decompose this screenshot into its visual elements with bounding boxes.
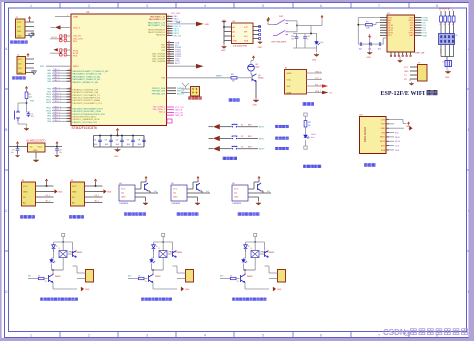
label key2 function chinese bbox=[276, 137, 279, 140]
svg-text:GND: GND bbox=[107, 191, 112, 193]
svg-text:PA11/USART1_CTS: PA11/USART1_CTS bbox=[148, 22, 166, 25]
header J8 blue 2x4 bbox=[439, 34, 455, 45]
svg-text:PA4_1: PA4_1 bbox=[54, 79, 61, 82]
svg-text:SPI_CS: SPI_CS bbox=[174, 35, 182, 37]
module U8 RFID-RC522 bbox=[360, 117, 387, 154]
gnd U6 bbox=[248, 196, 259, 198]
capacitor C3 output bbox=[56, 146, 58, 148]
capacitor C1 reset bbox=[27, 114, 31, 115]
svg-text:LED2: LED2 bbox=[311, 134, 317, 136]
wire DQ U5 bbox=[200, 190, 202, 192]
svg-text:104: 104 bbox=[94, 144, 97, 146]
transistor Q1 driver bbox=[49, 274, 54, 282]
rc network and led backlight bbox=[297, 25, 311, 27]
label led chinese bbox=[304, 165, 307, 168]
svg-text:8: 8 bbox=[436, 4, 438, 8]
svg-text:VCC: VCC bbox=[287, 79, 292, 81]
button S1 reset bbox=[15, 110, 21, 121]
svg-text:12: 12 bbox=[69, 88, 71, 90]
gnd U3 right bbox=[259, 26, 261, 28]
svg-text:PA10: PA10 bbox=[174, 18, 180, 21]
IC U5 DS18B20 bbox=[171, 185, 187, 201]
svg-text:CSDN: CSDN bbox=[383, 328, 406, 337]
svg-text:A0_1: A0_1 bbox=[95, 199, 99, 202]
gnd U5 bbox=[187, 196, 198, 198]
wire DQ U6 bbox=[261, 190, 263, 192]
svg-text:104: 104 bbox=[105, 144, 108, 146]
svg-text:VCC: VCC bbox=[404, 67, 409, 69]
svg-text:PA14/JTCK/SWCLK: PA14/JTCK/SWCLK bbox=[148, 31, 166, 34]
svg-text:PB3_1: PB3_1 bbox=[54, 112, 61, 114]
svg-text:CLK: CLK bbox=[18, 68, 23, 70]
svg-text:PB5_1: PB5_1 bbox=[54, 117, 61, 119]
svg-text:S8050: S8050 bbox=[247, 276, 252, 278]
svg-text:A0_1: A0_1 bbox=[46, 199, 50, 202]
transistor Q2 driver bbox=[149, 274, 154, 282]
svg-text:PB9/TIM4_CH4: PB9/TIM4_CH4 bbox=[152, 93, 165, 95]
pullup transistor U6 bbox=[248, 188, 254, 190]
MCU right pin rows group2 bbox=[167, 41, 183, 65]
svg-text:PA3_1: PA3_1 bbox=[54, 76, 61, 79]
svg-text:4: 4 bbox=[444, 24, 445, 26]
capacitor C2 input bbox=[17, 146, 19, 148]
svg-text:PB5/I2C1_SMBA/SPI3_MOSI: PB5/I2C1_SMBA/SPI3_MOSI bbox=[73, 118, 101, 121]
port gnd card reader bbox=[394, 127, 404, 129]
power flag switches bbox=[267, 18, 269, 21]
svg-text:X1: X1 bbox=[442, 62, 444, 64]
diode D2 flyback bbox=[153, 242, 155, 245]
svg-text:MISO: MISO bbox=[395, 137, 401, 139]
svg-text:TXD: TXD bbox=[17, 26, 22, 28]
svg-text:S8550: S8550 bbox=[177, 252, 182, 254]
svg-text:VCC: VCC bbox=[17, 22, 22, 24]
gnd U3 left-top bbox=[223, 23, 225, 27]
svg-text:C5: C5 bbox=[105, 139, 107, 141]
gnd esp caps bbox=[369, 44, 371, 50]
emitter wire 2 bbox=[152, 283, 154, 289]
svg-text:6: 6 bbox=[320, 334, 322, 338]
svg-text:PA15/JTDI: PA15/JTDI bbox=[156, 34, 165, 37]
label smoke-detect chinese bbox=[21, 215, 24, 218]
svg-text:C7: C7 bbox=[127, 139, 129, 141]
svg-text:2: 2 bbox=[440, 52, 441, 54]
svg-text:PB1_1: PB1_1 bbox=[54, 90, 61, 92]
reset circuit R1 C1 S1 bbox=[25, 87, 28, 91]
svg-text:TIM2_CH1/PA5: TIM2_CH1/PA5 bbox=[152, 52, 165, 55]
port arrow display sda bbox=[322, 91, 329, 94]
svg-text:B: B bbox=[5, 128, 7, 132]
svg-text:8: 8 bbox=[452, 10, 453, 12]
svg-text:12: 12 bbox=[69, 69, 71, 71]
header J6 display bbox=[285, 70, 307, 95]
svg-text:SCK: SCK bbox=[381, 145, 386, 147]
svg-text:DS18B20: DS18B20 bbox=[120, 203, 129, 205]
svg-text:GND: GND bbox=[258, 47, 263, 49]
MCU left pin bundle wires bbox=[46, 68, 71, 123]
svg-text:PB0_1: PB0_1 bbox=[54, 87, 61, 89]
svg-text:LED: LED bbox=[320, 42, 324, 44]
gnd stub led bbox=[304, 146, 307, 149]
svg-text:8: 8 bbox=[436, 334, 438, 338]
svg-text:U2 AMS1117(SOT): U2 AMS1117(SOT) bbox=[26, 140, 46, 143]
svg-text:WIFI: WIFI bbox=[411, 91, 426, 97]
resistor array R4-R7 bbox=[440, 11, 442, 16]
transistor Q2b bbox=[168, 253, 173, 255]
svg-text:4: 4 bbox=[204, 334, 206, 338]
svg-text:PB11/I2C2_SDA/USART3_RX: PB11/I2C2_SDA/USART3_RX bbox=[73, 97, 101, 100]
port gnd relay 1 bbox=[81, 287, 83, 290]
svg-text:104: 104 bbox=[138, 144, 141, 146]
svg-text:SDA: SDA bbox=[287, 91, 292, 94]
svg-text:PA1_1: PA1_1 bbox=[54, 71, 61, 74]
svg-text:12: 12 bbox=[69, 117, 71, 119]
svg-text:GND_A: GND_A bbox=[175, 109, 183, 112]
svg-text:RST: RST bbox=[30, 101, 35, 103]
svg-text:GND: GND bbox=[121, 197, 126, 199]
svg-text:TIM2_CH3/PA7: TIM2_CH3/PA7 bbox=[152, 58, 165, 61]
svg-text:VCC: VCC bbox=[121, 189, 126, 191]
svg-text:STM32F103C8T6: STM32F103C8T6 bbox=[72, 126, 98, 130]
svg-text:K2: K2 bbox=[241, 136, 243, 138]
svg-text:BOOT1: BOOT1 bbox=[177, 93, 185, 95]
label J2 chinese bbox=[13, 77, 16, 80]
IC U6 DS18B20 bbox=[232, 185, 248, 201]
svg-text:S8550: S8550 bbox=[269, 252, 274, 254]
label buzzer chinese bbox=[229, 99, 232, 102]
svg-text:SDA_1: SDA_1 bbox=[315, 90, 321, 93]
svg-text:GND: GND bbox=[114, 156, 119, 158]
svg-text:PB10/I2C2_SCL/USART3_TX: PB10/I2C2_SCL/USART3_TX bbox=[73, 94, 101, 97]
label keys chinese bbox=[223, 157, 226, 160]
svg-text:24C02(SOP8): 24C02(SOP8) bbox=[233, 45, 247, 47]
svg-text:1u: 1u bbox=[307, 39, 309, 41]
svg-text:GND: GND bbox=[23, 191, 28, 193]
diode D3 flyback bbox=[245, 242, 247, 245]
svg-text:12: 12 bbox=[69, 72, 71, 74]
svg-text:PB12/SPI2_NSS/I2C2_SMBA: PB12/SPI2_NSS/I2C2_SMBA bbox=[73, 99, 101, 102]
svg-text:PB9: PB9 bbox=[161, 50, 165, 52]
pullup transistor U5 bbox=[187, 188, 193, 190]
svg-text:C4: C4 bbox=[94, 139, 96, 141]
svg-text:12: 12 bbox=[69, 96, 71, 98]
svg-text:12: 12 bbox=[69, 107, 71, 109]
net stub led bbox=[304, 113, 307, 116]
svg-text:SDA: SDA bbox=[381, 149, 386, 152]
svg-text:blue: blue bbox=[311, 137, 315, 139]
antenna symbol J5 bbox=[182, 83, 189, 89]
svg-text:1: 1 bbox=[30, 4, 32, 8]
svg-text:GND: GND bbox=[205, 24, 210, 26]
svg-text:SCK: SCK bbox=[395, 146, 400, 148]
vcc cap bank bbox=[116, 129, 119, 133]
svg-text:12: 12 bbox=[69, 75, 71, 77]
port GND right2 bbox=[167, 65, 197, 67]
vcc rc right bbox=[321, 16, 323, 20]
resistor R9 on beep wire bbox=[231, 77, 237, 79]
crystal Y1 32k bbox=[50, 38, 61, 40]
svg-text:GND_1: GND_1 bbox=[315, 71, 321, 73]
svg-text:PB14_1: PB14_1 bbox=[54, 106, 62, 108]
svg-text:12: 12 bbox=[69, 115, 71, 117]
pullup transistor U4 bbox=[135, 188, 141, 190]
svg-text:OSC_IN: OSC_IN bbox=[73, 36, 81, 38]
led D2b status bbox=[152, 257, 154, 259]
svg-text:SDA: SDA bbox=[395, 149, 400, 152]
svg-text:GND: GND bbox=[85, 289, 90, 291]
svg-text:104: 104 bbox=[359, 48, 362, 50]
svg-text:PA12/USART1_RTS: PA12/USART1_RTS bbox=[148, 24, 166, 27]
svg-text:RFID-RC522: RFID-RC522 bbox=[363, 126, 367, 142]
ground U2 bbox=[35, 152, 37, 158]
header J3 sensor bbox=[22, 182, 36, 206]
svg-text:12: 12 bbox=[69, 77, 71, 79]
svg-text:KEY SW-SPDT: KEY SW-SPDT bbox=[272, 41, 288, 43]
svg-text:12: 12 bbox=[69, 98, 71, 100]
svg-text:@: @ bbox=[404, 330, 411, 337]
svg-text:PB8/TIM4_CH3: PB8/TIM4_CH3 bbox=[152, 91, 165, 93]
port gnd relay 3 bbox=[273, 287, 275, 290]
svg-text:GND: GND bbox=[185, 289, 190, 291]
header J4 sensor bbox=[71, 182, 85, 206]
MCU U1 STM32F103C8T6 bbox=[71, 11, 181, 130]
svg-text:12: 12 bbox=[69, 112, 71, 114]
component X1 right bbox=[445, 61, 452, 67]
svg-text:GND: GND bbox=[404, 71, 409, 73]
module U7 ESP-12F bbox=[387, 15, 415, 52]
svg-text:4: 4 bbox=[452, 24, 453, 26]
vcc relay 2 bbox=[162, 234, 165, 237]
svg-text:PB15/SPI2_MOSI/TIM1_CH3N: PB15/SPI2_MOSI/TIM1_CH3N bbox=[73, 111, 102, 113]
svg-text:TIM2_CH4/PB8: TIM2_CH4/PB8 bbox=[152, 61, 165, 63]
svg-text:PB6_1: PB6_1 bbox=[54, 120, 61, 122]
svg-text:GND: GND bbox=[234, 197, 239, 199]
svg-text:VCC: VCC bbox=[234, 189, 239, 191]
svg-text:RST: RST bbox=[40, 66, 45, 68]
button S1 bbox=[220, 126, 231, 128]
wire NRST bbox=[46, 65, 71, 67]
svg-text:IRQ: IRQ bbox=[395, 132, 399, 134]
port gnd relay 2 bbox=[181, 287, 183, 290]
svg-text:PA3/USART2_RX/ADC12_IN3: PA3/USART2_RX/ADC12_IN3 bbox=[73, 78, 102, 81]
svg-text:D0_1: D0_1 bbox=[95, 195, 100, 197]
svg-text:104: 104 bbox=[127, 144, 130, 146]
port GND right1 bbox=[167, 23, 197, 25]
svg-text:S8550: S8550 bbox=[77, 252, 82, 254]
transistor Q1b bbox=[68, 253, 73, 255]
svg-text:VSS_3/VDD_1: VSS_3/VDD_1 bbox=[152, 109, 165, 111]
label relay chinese 1 bbox=[41, 298, 44, 301]
svg-text:DQ: DQ bbox=[173, 193, 177, 195]
svg-text:DQ: DQ bbox=[121, 193, 125, 195]
MCU right pin rows group1 bbox=[167, 15, 183, 37]
svg-text:PB15_1: PB15_1 bbox=[54, 109, 62, 111]
MCU right SWD stubs bbox=[167, 88, 186, 95]
svg-text:S8050: S8050 bbox=[55, 276, 60, 278]
svg-text:PA0_1: PA0_1 bbox=[54, 68, 61, 71]
header relay out 1 bbox=[86, 270, 94, 283]
svg-text:2: 2 bbox=[88, 4, 90, 8]
IC U3 eeprom 24C02 bbox=[232, 23, 254, 44]
svg-text:PA4/SPI1_NSS/ADC12_IN4: PA4/SPI1_NSS/ADC12_IN4 bbox=[73, 81, 99, 84]
bus bottom rc bbox=[293, 47, 317, 49]
port GND left bbox=[55, 25, 61, 29]
emitter wire 3 bbox=[244, 283, 246, 289]
capacitor C10 bbox=[296, 34, 298, 37]
svg-text:PA2/USART2_TX/ADC12_IN2: PA2/USART2_TX/ADC12_IN2 bbox=[73, 75, 101, 78]
switch SW2 bbox=[273, 31, 288, 36]
svg-text:GND: GND bbox=[406, 126, 411, 128]
svg-text:GND: GND bbox=[287, 73, 292, 75]
svg-text:K3: K3 bbox=[241, 147, 243, 149]
svg-text:RXD: RXD bbox=[17, 31, 22, 33]
label temp module chinese 2 bbox=[177, 213, 180, 216]
wire DQ U4 bbox=[148, 190, 150, 192]
svg-text:GND: GND bbox=[33, 150, 38, 152]
svg-text:PA2_1: PA2_1 bbox=[54, 73, 61, 76]
svg-text:DQ: DQ bbox=[267, 191, 270, 193]
svg-text:MOSI: MOSI bbox=[395, 141, 401, 143]
svg-text:PB13_1: PB13_1 bbox=[54, 101, 62, 103]
svg-text:OSC32: OSC32 bbox=[51, 37, 57, 39]
svg-text:PA10/USART1_RX: PA10/USART1_RX bbox=[149, 18, 166, 21]
svg-text:GND: GND bbox=[173, 197, 178, 199]
svg-text:5: 5 bbox=[262, 334, 264, 338]
svg-text:12: 12 bbox=[69, 101, 71, 103]
label temp module chinese 3 bbox=[238, 213, 241, 216]
lavender edge strips bbox=[0, 0, 474, 2]
MCU bottom-right magenta power stubs bbox=[167, 107, 185, 123]
svg-text:VBAT: VBAT bbox=[73, 15, 79, 18]
svg-text:1: 1 bbox=[440, 50, 441, 52]
svg-text:VCC_5V0: VCC_5V0 bbox=[171, 13, 181, 15]
svg-text:PA13/JTMS/SWDIO: PA13/JTMS/SWDIO bbox=[148, 29, 165, 32]
svg-text:104: 104 bbox=[291, 39, 294, 41]
transistor Q3 driver bbox=[241, 274, 246, 282]
svg-text:PB7/I2C1_SDA: PB7/I2C1_SDA bbox=[152, 87, 166, 90]
esp decoupling caps C12 C13 C14 bbox=[358, 43, 360, 45]
port gnd J4 bbox=[101, 190, 106, 193]
svg-text:ADC: ADC bbox=[388, 19, 393, 22]
svg-text:PA0/WKUP/USART2_CTS/ADC12_IN0: PA0/WKUP/USART2_CTS/ADC12_IN0 bbox=[73, 70, 110, 73]
svg-text:USB: USB bbox=[176, 22, 181, 24]
resistor R2 led bbox=[304, 121, 307, 128]
svg-text:ESP-12F/E: ESP-12F/E bbox=[381, 91, 409, 97]
svg-text:VDD_3: VDD_3 bbox=[73, 27, 81, 29]
svg-text:TIM2_CH2/PA6: TIM2_CH2/PA6 bbox=[152, 55, 165, 58]
svg-text:4: 4 bbox=[448, 24, 449, 26]
vcc arrows U2 bbox=[16, 142, 18, 146]
label J5 chinese bbox=[189, 97, 192, 100]
svg-text:3: 3 bbox=[146, 4, 148, 8]
label J1 chinese bbox=[11, 41, 14, 44]
capacitor C11 bbox=[304, 34, 306, 37]
svg-text:BEEP: BEEP bbox=[216, 76, 222, 78]
header J5 download 4p bbox=[191, 87, 200, 97]
label relay chinese 2 bbox=[142, 298, 145, 301]
svg-text:12: 12 bbox=[69, 93, 71, 95]
junction relay 2 bbox=[162, 241, 164, 243]
svg-text:PB10_1: PB10_1 bbox=[54, 93, 62, 95]
svg-text:S8050: S8050 bbox=[155, 276, 160, 278]
svg-text:GND: GND bbox=[221, 50, 226, 52]
svg-text:GND: GND bbox=[17, 35, 22, 37]
svg-text:3: 3 bbox=[146, 334, 148, 338]
svg-text:PA9/USART1_TX: PA9/USART1_TX bbox=[150, 15, 166, 18]
svg-text:GND: GND bbox=[367, 57, 372, 59]
svg-text:MOSI: MOSI bbox=[380, 141, 386, 143]
port gnd key 1 bbox=[209, 126, 214, 128]
svg-text:VCC: VCC bbox=[244, 27, 249, 29]
svg-text:VDD_2: VDD_2 bbox=[159, 112, 165, 114]
svg-text:R4 R5 R6 R7: R4 R5 R6 R7 bbox=[439, 8, 450, 10]
card reader net labels bbox=[395, 132, 401, 151]
svg-text:VCC: VCC bbox=[388, 35, 393, 37]
button S3 bbox=[220, 148, 231, 150]
svg-text:PB0/ADC12_IN8/TIM3_CH3: PB0/ADC12_IN8/TIM3_CH3 bbox=[73, 88, 100, 91]
gnd U4 bbox=[135, 196, 146, 198]
svg-text:GND: GND bbox=[445, 77, 450, 79]
svg-text:MISO: MISO bbox=[380, 137, 386, 139]
svg-text:12: 12 bbox=[69, 80, 71, 82]
vcc arrow esp supply bbox=[368, 34, 371, 38]
svg-text:GND: GND bbox=[58, 191, 63, 193]
resistor R3 esp reset bbox=[358, 17, 380, 19]
header J1 serial download bbox=[16, 19, 26, 38]
svg-text:29: 29 bbox=[168, 62, 170, 64]
svg-text:VSS_1/VSS_2: VSS_1/VSS_2 bbox=[153, 106, 165, 108]
svg-text:PB13/SPI2_SCK/USART3_CTS: PB13/SPI2_SCK/USART3_CTS bbox=[73, 102, 103, 105]
gnd J7 bbox=[409, 82, 414, 85]
svg-text:10u: 10u bbox=[59, 152, 62, 154]
label display chinese bbox=[303, 103, 306, 106]
emitter wire 1 bbox=[52, 283, 54, 289]
diode D1 flyback bbox=[53, 242, 55, 245]
svg-text:VCC: VCC bbox=[72, 186, 77, 188]
svg-text:6: 6 bbox=[320, 4, 322, 8]
svg-text:1: 1 bbox=[30, 334, 32, 338]
svg-text:4: 4 bbox=[440, 24, 441, 26]
svg-text:10u: 10u bbox=[11, 152, 14, 154]
svg-text:ADC1: ADC1 bbox=[175, 62, 181, 65]
svg-text:3.3V: 3.3V bbox=[381, 119, 386, 121]
port gnd key 3 bbox=[209, 148, 214, 150]
header J2 debug bbox=[17, 57, 26, 75]
svg-text:GND: GND bbox=[312, 60, 317, 62]
label card reader chinese bbox=[365, 164, 368, 167]
svg-text:C8: C8 bbox=[138, 139, 140, 141]
svg-text:PB4/NJTRST/SPI3_MISO: PB4/NJTRST/SPI3_MISO bbox=[73, 117, 97, 119]
svg-text:SCL_1: SCL_1 bbox=[315, 84, 321, 86]
svg-text:KEY2: KEY2 bbox=[259, 138, 265, 140]
gnd J8 bbox=[445, 70, 451, 74]
svg-text:VCC_1: VCC_1 bbox=[315, 78, 321, 80]
buzzer B1 bbox=[248, 65, 255, 72]
svg-text:Vout: Vout bbox=[38, 146, 43, 149]
svg-text:12: 12 bbox=[69, 109, 71, 111]
svg-text:PB4_1: PB4_1 bbox=[54, 115, 61, 117]
svg-text:GND: GND bbox=[381, 128, 386, 130]
svg-text:7: 7 bbox=[378, 334, 380, 338]
svg-text:ESP-12F: ESP-12F bbox=[416, 53, 426, 55]
svg-text:4: 4 bbox=[204, 4, 206, 8]
svg-text:PB11_1: PB11_1 bbox=[54, 96, 62, 98]
svg-text:SDA: SDA bbox=[244, 39, 249, 42]
vcc relay 1 bbox=[62, 234, 65, 237]
svg-text:IRQ: IRQ bbox=[381, 132, 385, 134]
header relay out 2 bbox=[186, 270, 194, 283]
svg-text:C6: C6 bbox=[116, 139, 118, 141]
header J7 esp 4p bbox=[418, 65, 428, 82]
